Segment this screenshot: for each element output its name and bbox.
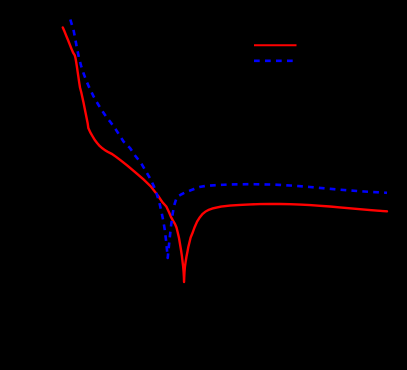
- blue dashed curve (series 2): [70, 20, 387, 259]
- legend blue dashed line sample: [254, 59, 294, 62]
- red solid curve (series 1): [63, 28, 387, 283]
- legend red solid line sample: [254, 44, 297, 46]
